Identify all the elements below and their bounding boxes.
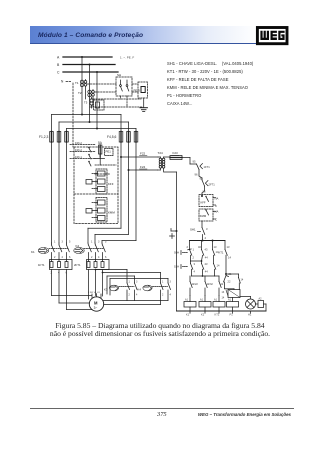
wire motor tap to K4 pole2 <box>110 279 168 296</box>
svg-text:14: 14 <box>228 256 231 260</box>
wire merge row2 <box>192 275 215 277</box>
contact thermal 2FT1 <box>200 177 216 197</box>
wire SH1 to PE box dashed <box>132 84 138 92</box>
svg-text:S0H: S0H <box>174 251 179 255</box>
svg-text:5: 5 <box>69 241 71 244</box>
node C label <box>57 71 60 75</box>
svg-text:C: C <box>215 218 217 222</box>
wire dashed y99 <box>93 96 141 99</box>
svg-text:P1: P1 <box>230 313 234 317</box>
wire to K3 <box>96 270 128 284</box>
svg-text:F26.1: F26.1 <box>75 155 82 159</box>
svg-text:T2: T2 <box>78 91 82 95</box>
svg-text:6: 6 <box>69 256 71 259</box>
svg-text:14: 14 <box>241 279 244 282</box>
svg-text:3: 3 <box>136 281 138 284</box>
lamp H1 <box>246 299 256 309</box>
wire F6 out <box>102 142 136 243</box>
svg-text:95: 95 <box>193 160 196 164</box>
svg-text:4: 4 <box>194 270 196 274</box>
wire branch5 <box>226 274 244 290</box>
contact thermal 1FT1 <box>193 160 211 179</box>
header title <box>38 32 143 39</box>
wire F26.1 dashed <box>70 155 95 159</box>
coil terminals A1 labels <box>185 299 232 302</box>
pushbutton S1H1 <box>174 262 196 276</box>
svg-text:4: 4 <box>136 294 138 297</box>
coil P1 <box>227 298 239 312</box>
bus C <box>63 71 118 73</box>
svg-text:H1: H1 <box>248 313 252 317</box>
svg-text:4: 4 <box>98 256 100 259</box>
switch SH1 box <box>116 73 132 96</box>
svg-text:6 W1 V1 U1: 6 W1 V1 U1 <box>88 292 101 294</box>
coil K1 <box>184 296 196 312</box>
svg-text:A1: A1 <box>200 299 204 302</box>
svg-text:4: 4 <box>205 236 207 240</box>
wire dashed y105 <box>90 96 142 107</box>
supply label <box>120 56 134 60</box>
svg-text:A1: A1 <box>185 299 189 302</box>
svg-text:3: 3 <box>170 281 172 284</box>
svg-text:3: 3 <box>62 241 64 244</box>
footer page number <box>157 411 167 418</box>
svg-text:14: 14 <box>222 297 225 300</box>
fuse F3 <box>65 132 69 143</box>
svg-text:96: 96 <box>195 173 198 177</box>
wire 1FT1 to motor b <box>59 270 89 304</box>
terminal block right <box>256 298 267 312</box>
fuse F4,5,6 label <box>107 135 117 139</box>
motor M1 <box>88 292 104 311</box>
svg-text:SH1: SH1 <box>190 228 196 232</box>
coil KT1 <box>213 296 225 312</box>
svg-text:44: 44 <box>205 256 208 260</box>
svg-text:40: 40 <box>198 245 201 249</box>
svg-text:NA: NA <box>215 197 219 201</box>
contactor K1 <box>31 241 71 260</box>
wire inside box dashed <box>95 165 116 174</box>
footer rule <box>30 407 294 410</box>
svg-text:42/32: 42/32 <box>207 283 214 286</box>
rail terminal ticks <box>190 311 251 313</box>
svg-text:F23: F23 <box>173 151 179 155</box>
node B label <box>57 63 60 67</box>
svg-text:K3: K3 <box>104 288 108 292</box>
wire branch1 top <box>187 241 190 250</box>
svg-text:KFF: KFF <box>108 182 114 186</box>
wire to timer <box>225 288 235 291</box>
svg-text:1: 1 <box>193 248 195 252</box>
relay contact box KFF <box>199 195 219 209</box>
svg-text:3: 3 <box>98 241 100 244</box>
svg-text:F24: F24 <box>140 165 146 169</box>
wire F3 out <box>66 142 68 243</box>
wire phase B drop <box>89 65 91 123</box>
svg-text:42/22: 42/22 <box>192 283 199 286</box>
contact KT1 branch4 <box>219 241 232 275</box>
svg-text:KMM: KMM <box>108 211 115 215</box>
junction on bus A <box>81 56 83 58</box>
control bottom rail <box>177 310 267 312</box>
terminal PE1 <box>105 149 114 156</box>
svg-text:KT1: KT1 <box>219 251 224 255</box>
svg-text:13: 13 <box>214 245 217 249</box>
wire F22 tap <box>120 152 158 159</box>
wire F24 tap <box>128 165 158 171</box>
svg-text:2FT1: 2FT1 <box>74 263 81 267</box>
contact row3 b1 <box>190 276 198 296</box>
wire KMM to SH1 <box>201 221 203 228</box>
svg-text:2: 2 <box>162 294 164 297</box>
fuse F1,2,3 label <box>39 135 49 139</box>
svg-text:43: 43 <box>205 262 208 266</box>
contact K branch2 row2 <box>202 261 209 276</box>
terminal box dashed <box>94 100 105 110</box>
svg-text:2: 2 <box>187 245 189 249</box>
wire 5A out <box>95 157 105 165</box>
wire F23 to chain <box>182 158 197 165</box>
footer right text <box>0 412 291 417</box>
relay KMM contacts <box>86 198 115 223</box>
fuse F1 <box>50 132 54 143</box>
svg-text:A1: A1 <box>228 299 232 302</box>
wire F4 out <box>88 142 121 243</box>
wire to K4 <box>103 273 161 284</box>
ground <box>140 108 147 112</box>
junction before KFF <box>201 195 203 197</box>
svg-text:T1: T1 <box>75 81 79 85</box>
wire phase C drop <box>96 72 98 129</box>
svg-text:T24: T24 <box>158 151 164 155</box>
wire T24 secondary return <box>164 172 176 311</box>
wire F26.2 dashed <box>70 141 95 145</box>
wire N dashed <box>66 82 73 148</box>
fuse F2 <box>57 132 61 143</box>
contactor K2 <box>74 241 107 260</box>
junction on bus B <box>89 64 91 66</box>
svg-text:2: 2 <box>54 256 56 259</box>
control bus <box>190 240 226 242</box>
wire distribution bus 3 <box>67 128 137 132</box>
svg-text:22: 22 <box>228 280 231 284</box>
svg-text:13: 13 <box>227 245 230 249</box>
wire 2FT1 to motor b <box>95 269 97 296</box>
terminal designators below rail <box>186 313 252 317</box>
figure caption <box>0 322 320 338</box>
relay KFF contacts <box>86 169 114 194</box>
wire motor tap to K3 pole2 <box>107 276 135 294</box>
legend text block <box>167 60 253 109</box>
wire F1 out <box>51 142 53 243</box>
overload 1FT1 <box>38 260 72 275</box>
header bar <box>30 26 257 44</box>
svg-text:A1: A1 <box>214 299 218 302</box>
fuse F6 <box>134 132 138 143</box>
wire 1FT1 to motor c <box>67 270 93 310</box>
svg-text:C: C <box>215 204 217 208</box>
wire 1FT1 to motor a <box>52 270 92 296</box>
wire 2FT1 to motor a <box>88 270 90 300</box>
svg-text:S1H: S1H <box>174 265 179 269</box>
wire F5 out <box>95 142 129 243</box>
svg-text:NA: NA <box>215 210 219 214</box>
node A label <box>57 56 60 60</box>
contact row3 b3 <box>215 276 224 296</box>
svg-text:KT1: KT1 <box>215 313 220 317</box>
wire K3 K4 lower bus1 <box>103 300 168 302</box>
svg-text:3: 3 <box>206 227 208 231</box>
svg-text:K1: K1 <box>186 313 190 317</box>
svg-text:M: M <box>94 300 98 305</box>
relay box dashed KFF KMM <box>74 147 118 224</box>
wire F26.2b dashed <box>70 148 95 152</box>
svg-text:6: 6 <box>105 256 107 259</box>
svg-text:1: 1 <box>129 281 131 284</box>
node N label <box>61 80 64 84</box>
svg-text:1: 1 <box>54 241 56 244</box>
svg-text:PE1: PE1 <box>106 150 112 154</box>
wire K3 K4 lower bus2 <box>104 304 161 306</box>
svg-text:22: 22 <box>221 283 224 286</box>
junction 21 <box>225 272 232 276</box>
wire to ground <box>143 98 145 107</box>
wire 2FT1 to motor c <box>102 270 104 297</box>
switch SH1 contact <box>190 227 208 241</box>
svg-text:C: C <box>57 71 60 75</box>
svg-text:43: 43 <box>205 248 208 252</box>
meter PE.3 box <box>134 82 148 98</box>
svg-text:F22: F22 <box>140 152 146 156</box>
contact row3 b2 <box>205 276 213 296</box>
svg-text:F1,2,3: F1,2,3 <box>39 135 49 139</box>
junction stub on T24 return <box>170 229 178 239</box>
svg-text:2: 2 <box>193 256 195 260</box>
svg-text:2: 2 <box>129 294 131 297</box>
svg-text:3: 3 <box>194 262 196 266</box>
contact group in relay box <box>88 147 91 166</box>
svg-text:14: 14 <box>217 264 220 268</box>
svg-text:2: 2 <box>91 256 93 259</box>
svg-text:F26.2: F26.2 <box>75 148 82 152</box>
svg-text:PE.3: PE.3 <box>134 89 141 93</box>
transformer T2 <box>78 90 94 108</box>
svg-text:1 .~. PE. F: 1 .~. PE. F <box>120 56 134 60</box>
svg-text:F4,5,6: F4,5,6 <box>107 135 117 139</box>
contact K branch3 row2 <box>214 264 220 277</box>
svg-text:1: 1 <box>162 281 164 284</box>
svg-text:K2: K2 <box>201 313 205 317</box>
contactor K4 <box>138 281 172 305</box>
coil K2 <box>199 296 211 312</box>
wire F2 out <box>58 142 60 243</box>
contactor K3 <box>104 281 138 301</box>
svg-text:2FT1: 2FT1 <box>209 183 216 187</box>
wire T2 secondary dashed <box>95 91 116 93</box>
bus A <box>63 56 112 58</box>
junction on bus C <box>96 71 98 73</box>
wire distribution bus 2 <box>59 121 129 131</box>
svg-text:44: 44 <box>205 270 208 274</box>
svg-text:95: 95 <box>200 177 203 181</box>
svg-text:KMM: KMM <box>200 214 207 218</box>
transformer T24 <box>158 151 171 172</box>
svg-text:N: N <box>61 80 64 84</box>
svg-text:KFF: KFF <box>201 201 206 205</box>
svg-text:4: 4 <box>170 294 172 297</box>
svg-text:F26.2: F26.2 <box>75 141 82 145</box>
wire merge row1 <box>191 260 203 263</box>
wire phase A drop <box>81 57 83 115</box>
contact NC 21-22 <box>224 276 231 289</box>
WEG logo <box>255 25 289 46</box>
svg-text:K4: K4 <box>138 288 142 292</box>
transformer T5 <box>84 97 93 108</box>
svg-text:A2: A2 <box>259 298 263 301</box>
overload 2FT1 <box>74 260 109 270</box>
fuse F4 <box>119 132 123 143</box>
contact K branch2 <box>198 241 208 262</box>
timer KT1 box <box>228 290 240 298</box>
svg-text:4: 4 <box>62 256 64 259</box>
svg-text:13: 13 <box>222 291 225 294</box>
contact K branch3 <box>213 241 219 264</box>
svg-text:1FT1: 1FT1 <box>38 263 45 267</box>
contact 13-14 small <box>222 290 229 300</box>
svg-text:3~: 3~ <box>94 306 98 310</box>
svg-text:K1: K1 <box>31 250 35 254</box>
svg-text:B: B <box>57 63 60 67</box>
wire lamp feed <box>240 297 251 300</box>
svg-text:T5: T5 <box>84 101 88 105</box>
fuse F5 <box>127 132 131 143</box>
fuse F23 <box>170 151 182 160</box>
svg-text:A: A <box>57 56 60 60</box>
svg-text:1: 1 <box>91 241 93 244</box>
svg-text:SH: SH <box>117 73 121 77</box>
pushbutton S0H1 <box>174 248 195 262</box>
relay contact box KMM <box>199 209 219 222</box>
fuse 5A <box>98 141 103 157</box>
svg-text:1FT1: 1FT1 <box>204 165 211 169</box>
wire distribution bus 1 <box>52 114 122 132</box>
wire T1 secondary dashed <box>88 83 117 85</box>
bus B <box>63 64 115 66</box>
transformer T1 <box>75 80 87 100</box>
